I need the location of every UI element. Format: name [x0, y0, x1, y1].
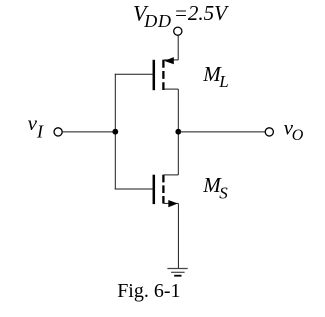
svg-text:DD: DD — [143, 11, 172, 31]
wire vI to gate bus — [62, 131, 115, 133]
wire MS gate — [115, 188, 153, 190]
svg-text:O: O — [292, 127, 304, 144]
svg-text:Fig. 6-1: Fig. 6-1 — [117, 280, 180, 302]
ground — [167, 269, 187, 276]
svg-text:=2.5V: =2.5V — [174, 1, 229, 25]
svg-text:S: S — [219, 184, 228, 203]
svg-text:L: L — [218, 72, 228, 91]
junction dot at output bus / vO — [175, 129, 181, 135]
output terminal vO — [265, 128, 273, 136]
wire ML gate — [115, 73, 153, 75]
label vO — [284, 116, 304, 145]
power terminal VDD — [174, 27, 182, 35]
label vI — [28, 111, 44, 141]
junction dot at gate bus / vI — [112, 129, 118, 135]
wire ML source down to MS drain (output bus) — [177, 89, 179, 175]
wire vO — [178, 131, 265, 133]
wire MS source down to ground — [177, 203, 179, 268]
svg-text:I: I — [36, 121, 44, 141]
label VDD = 2.5V — [133, 0, 229, 31]
transistor MS (NMOS switch) — [154, 175, 179, 208]
label ML — [202, 62, 228, 91]
wire gate bus (left vertical) — [114, 74, 116, 190]
label MS — [202, 173, 228, 203]
input terminal vI — [54, 128, 62, 136]
wire VDD terminal down to ML source lead — [177, 36, 179, 60]
transistor ML (PMOS load) — [154, 57, 179, 90]
